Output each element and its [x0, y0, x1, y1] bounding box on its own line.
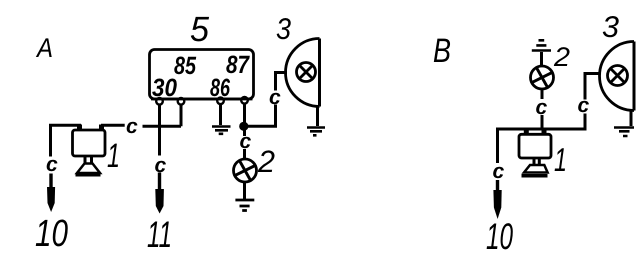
wire from switch to c label	[101, 124, 125, 127]
wire pin86 to ground	[219, 104, 222, 125]
horn switch 1 B base	[522, 174, 548, 178]
svg-text:1: 1	[554, 141, 567, 178]
svg-text:2: 2	[257, 144, 275, 179]
wire pin30 down	[158, 105, 161, 156]
svg-text:85: 85	[174, 52, 197, 80]
relay terminal pin 86	[217, 98, 224, 105]
relay terminal pin 85	[178, 98, 185, 105]
arrow connector 10 B	[493, 190, 501, 219]
svg-text:c: c	[126, 115, 138, 138]
arrow connector 11	[155, 189, 164, 214]
inverted ground (above lamp 2 B)	[532, 40, 551, 50]
svg-text:c: c	[493, 160, 505, 183]
wire horn 3 B to ground	[630, 109, 633, 126]
horn switch 1 B posts	[526, 129, 544, 136]
svg-text:c: c	[46, 153, 58, 176]
svg-text:11: 11	[147, 214, 172, 255]
svg-text:3: 3	[276, 13, 291, 46]
relay box bottom edge	[151, 98, 253, 101]
horn switch 1 B bell	[524, 165, 548, 173]
svg-text:1: 1	[107, 137, 120, 175]
wire ground to lamp 2 B	[540, 52, 543, 67]
wire riser to horn 3	[276, 73, 288, 91]
ground (pin 86)	[212, 127, 231, 134]
ground (horn 3 B)	[614, 128, 634, 137]
horn 3	[286, 39, 320, 107]
wire riser to horn 3 B	[585, 74, 600, 100]
lamp 2	[234, 159, 257, 182]
svg-text:10: 10	[486, 216, 513, 257]
junction dot	[239, 122, 248, 131]
wire lamp 2 B down	[541, 89, 544, 99]
wire bus switch 1 B	[498, 114, 586, 164]
wire stem to lamp 2	[243, 149, 246, 160]
horn 3 B	[600, 42, 634, 111]
arrow connector 10	[47, 187, 55, 212]
ground (horn 3)	[307, 128, 325, 136]
relay 5 box	[150, 50, 254, 100]
svg-text:5: 5	[190, 10, 210, 49]
wire lamp to switch 1 B	[541, 115, 544, 131]
wire stem to arrow 10	[49, 174, 52, 190]
wire horizontal junction segment	[143, 105, 182, 127]
horn switch 1 posts	[80, 125, 102, 132]
horn switch 1 B body	[519, 134, 551, 158]
horn switch 1 base	[76, 173, 101, 177]
wire stem to arrow 11	[158, 173, 161, 191]
lamp 2 B	[531, 66, 554, 89]
svg-text:3: 3	[602, 11, 619, 44]
wire junction to horn riser	[244, 105, 276, 127]
wire stem to arrow 10 B	[496, 180, 499, 192]
wire lamp 2 to ground	[243, 182, 246, 199]
relay terminal pin 30	[156, 98, 163, 105]
horn switch 1 body	[73, 130, 106, 156]
horn switch 1 B legs	[534, 158, 539, 166]
wire pin87 down	[243, 104, 246, 136]
svg-text:A: A	[35, 33, 53, 63]
wire horn 3 to ground	[316, 107, 319, 127]
horn switch 1 bell	[77, 164, 100, 174]
horn switch 1 legs	[85, 156, 92, 164]
ground (lamp 2)	[235, 200, 254, 211]
svg-text:B: B	[433, 32, 451, 70]
svg-text:10: 10	[35, 213, 68, 255]
horn switch 1 left wire	[51, 125, 80, 156]
horn switch 1 right post	[100, 125, 103, 130]
relay terminal pin 87	[241, 97, 248, 104]
svg-text:2: 2	[553, 42, 570, 72]
